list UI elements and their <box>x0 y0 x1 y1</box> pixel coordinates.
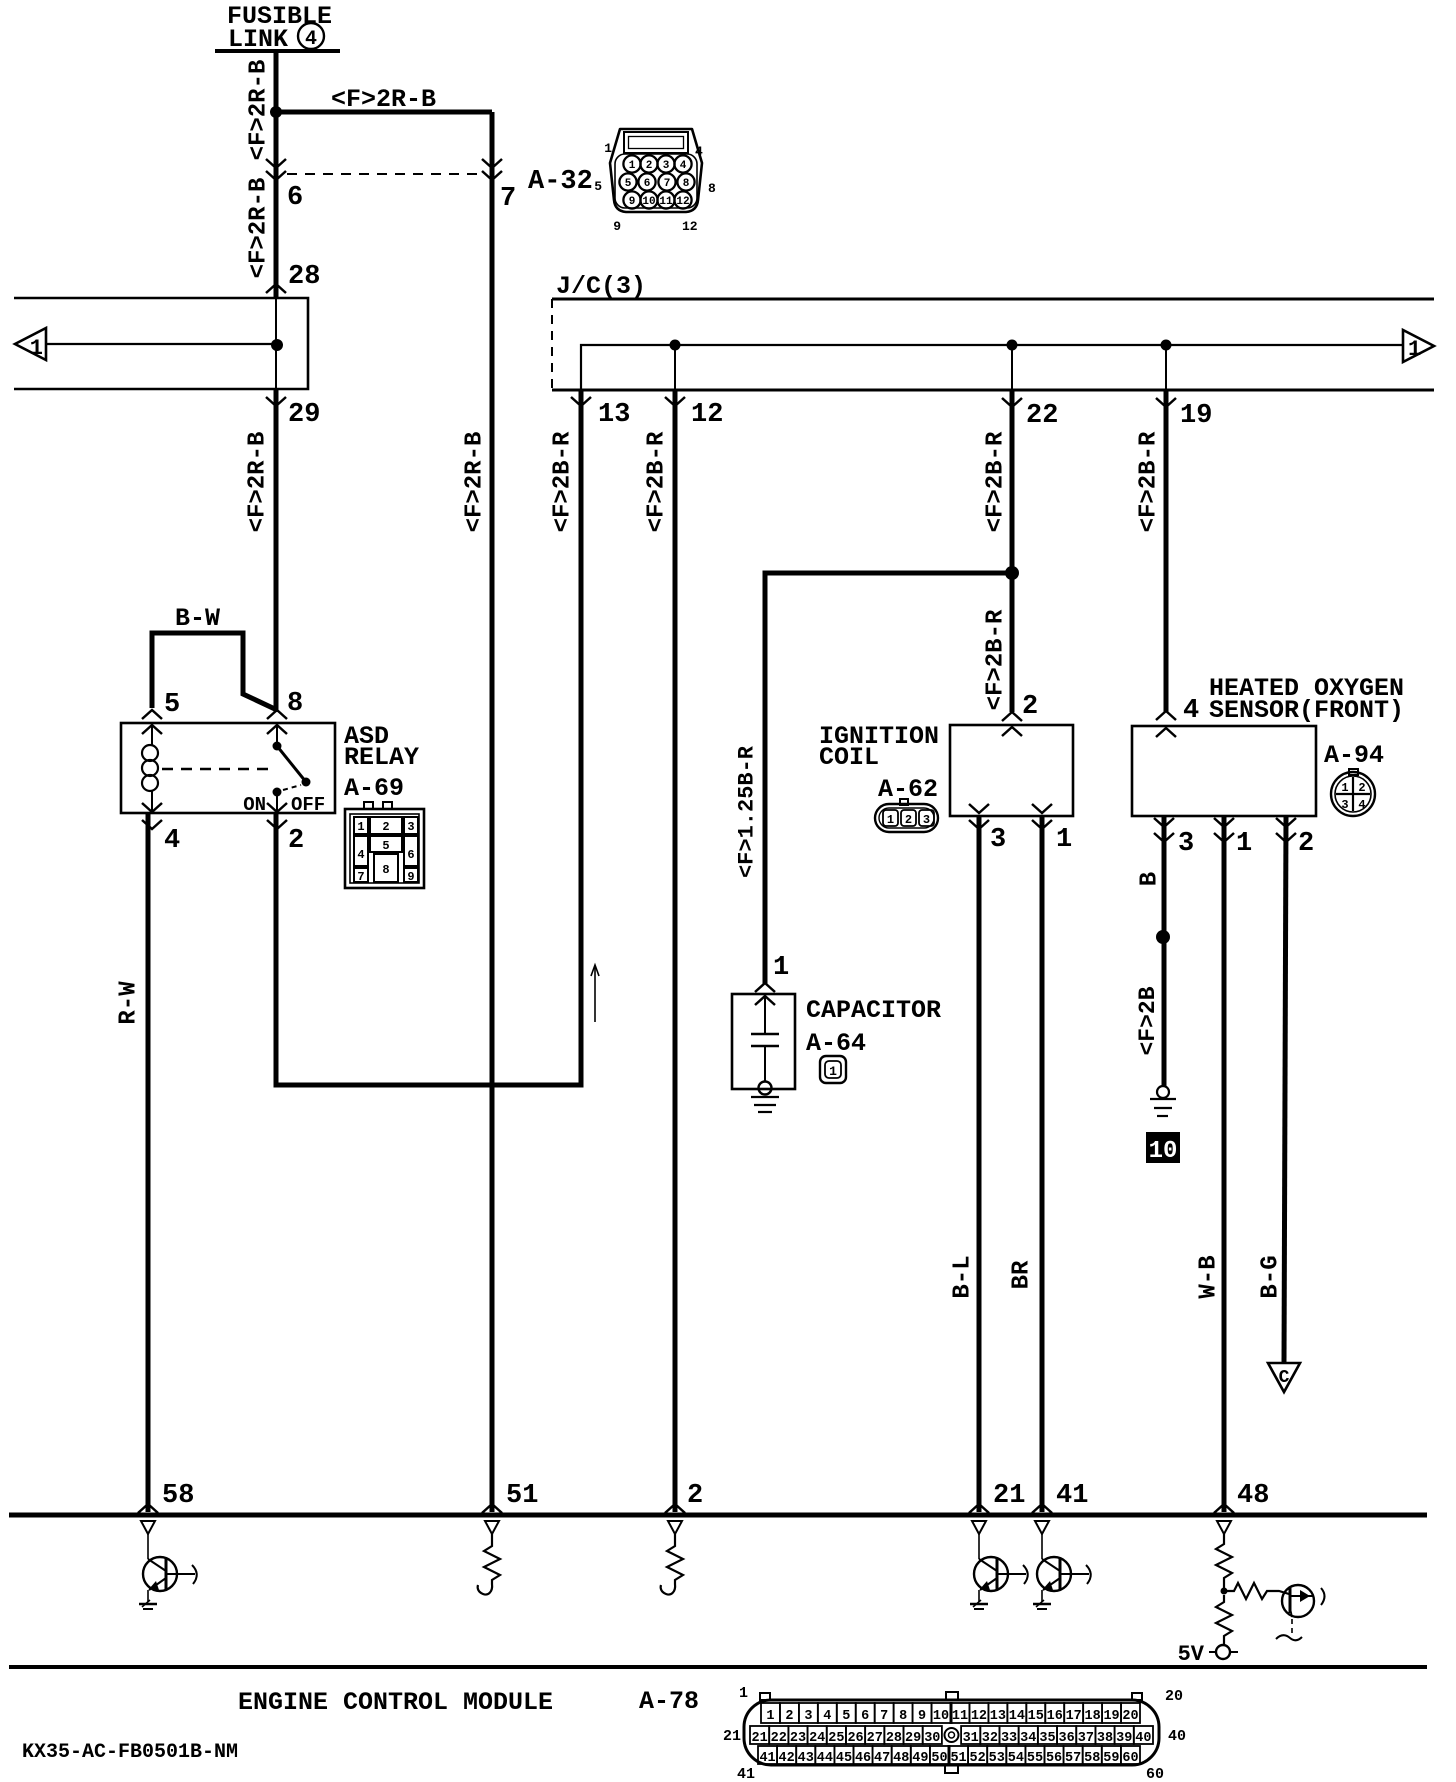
svg-text:29: 29 <box>905 1731 921 1746</box>
svg-text:KX35-AC-FB0501B-NM: KX35-AC-FB0501B-NM <box>22 1741 238 1764</box>
junction dot at fusible link branch <box>270 106 282 118</box>
resistor at ECM pin 2 <box>661 1534 683 1595</box>
connector A-32 pin face icon <box>610 129 702 212</box>
connector A-94 icon <box>1349 769 1358 775</box>
svg-text:19: 19 <box>1180 401 1212 431</box>
svg-text:43: 43 <box>798 1751 814 1766</box>
svg-text:6: 6 <box>287 183 303 213</box>
svg-text:44: 44 <box>817 1751 833 1766</box>
wire: pin 29 down to relay pin 8 <box>274 389 279 712</box>
fusible link bus bar <box>215 49 340 53</box>
svg-text:ON: ON <box>243 794 266 816</box>
arrow into ECM pin 51 <box>482 1504 502 1513</box>
svg-text:<F>2B: <F>2B <box>1135 986 1161 1055</box>
arrow into A-32 pin 7 <box>482 159 502 168</box>
svg-text:10: 10 <box>933 1709 949 1724</box>
svg-text:<F>2B-R: <F>2B-R <box>643 431 670 532</box>
svg-text:5: 5 <box>594 179 602 194</box>
arrow into A-32 pin 6 <box>266 159 286 168</box>
svg-text:10: 10 <box>642 196 655 208</box>
svg-text:41: 41 <box>737 1766 755 1782</box>
J/C(3) internal bus <box>581 345 1403 390</box>
svg-text:2: 2 <box>1022 692 1038 722</box>
svg-text:50: 50 <box>931 1751 947 1766</box>
relay coil lead <box>151 723 153 746</box>
svg-text:8: 8 <box>899 1709 907 1724</box>
arrow out of relay pin 4 <box>142 803 162 812</box>
connector A-32 dashed tie line <box>287 173 481 175</box>
transistor at ECM pin 21 <box>978 1534 980 1559</box>
svg-text:21: 21 <box>993 1481 1025 1511</box>
svg-text:COIL: COIL <box>819 743 879 772</box>
svg-text:4: 4 <box>1358 798 1365 812</box>
svg-text:23: 23 <box>790 1731 806 1746</box>
capacitor plates <box>751 1033 779 1035</box>
svg-text:25: 25 <box>828 1731 844 1746</box>
svg-text:12: 12 <box>971 1709 987 1724</box>
relay contact arm (OFF) <box>277 746 306 782</box>
J/C(3) right arrow triangle 1 <box>1403 330 1434 362</box>
arrow into ECM pin 21 <box>969 1504 989 1513</box>
capacitor bottom lead <box>764 1046 766 1082</box>
ECM connector A-78 icon <box>744 1700 1159 1765</box>
arrow out of coil pin 1 <box>1032 804 1052 813</box>
svg-text:21: 21 <box>723 1728 741 1745</box>
ECM box top edge <box>9 1513 1427 1518</box>
svg-text:1: 1 <box>773 953 789 983</box>
wire B-W from pin 5 loop to pin 8 <box>152 633 277 710</box>
arrow out of sensor pin 1 <box>1214 818 1234 827</box>
svg-text:48: 48 <box>1237 1481 1269 1511</box>
svg-text:<F>2B-R: <F>2B-R <box>982 431 1009 532</box>
svg-text:4: 4 <box>357 848 364 862</box>
svg-text:58: 58 <box>1084 1751 1100 1766</box>
svg-text:<F>2B-R: <F>2B-R <box>982 609 1009 710</box>
junction dot J/C pin 22 <box>1007 340 1018 351</box>
svg-text:4: 4 <box>164 826 180 856</box>
svg-text:8: 8 <box>382 863 389 877</box>
svg-text:3: 3 <box>804 1709 812 1724</box>
svg-text:33: 33 <box>1001 1731 1017 1746</box>
svg-text:14: 14 <box>1009 1709 1025 1724</box>
wire: sensor pin 1 down to ECM pin 48 W-B <box>1222 816 1227 1512</box>
arrow out of sensor pin 2 <box>1276 818 1296 827</box>
capacitor ground symbol <box>751 1096 779 1098</box>
svg-text:1: 1 <box>604 141 612 156</box>
svg-text:35: 35 <box>1039 1731 1055 1746</box>
arrow into ECM pin 48 <box>1214 1504 1234 1513</box>
arrow out of pin 29 <box>266 397 286 406</box>
wire: sensor pin 2 to connector C B-G <box>1284 816 1286 1362</box>
arrow into ECM pin 41 <box>1032 1504 1052 1513</box>
svg-text:57: 57 <box>1065 1751 1081 1766</box>
svg-text:1: 1 <box>30 336 43 361</box>
ground terminal circle <box>1157 1086 1169 1098</box>
svg-text:<F>2R-B: <F>2R-B <box>331 85 436 114</box>
wire: sensor pin 3 to ground (F)2B <box>1162 816 1167 1086</box>
svg-text:<F>2R-B: <F>2R-B <box>461 432 488 533</box>
svg-text:2: 2 <box>646 160 653 172</box>
junction dot J/C pin 19 <box>1161 340 1172 351</box>
svg-text:60: 60 <box>1146 1766 1164 1782</box>
svg-text:22: 22 <box>771 1731 787 1746</box>
svg-text:40: 40 <box>1168 1728 1186 1745</box>
svg-text:29: 29 <box>288 400 320 430</box>
pull-up network at ECM pin 48 <box>1216 1534 1232 1591</box>
svg-text:1: 1 <box>829 1064 837 1079</box>
svg-text:8: 8 <box>683 178 690 190</box>
ECM pin 21 input triangle <box>972 1521 986 1534</box>
svg-text:49: 49 <box>912 1751 928 1766</box>
svg-text:54: 54 <box>1008 1751 1024 1766</box>
svg-text:<F>2R-B: <F>2R-B <box>244 432 271 533</box>
svg-text:51: 51 <box>950 1751 966 1766</box>
svg-text:2: 2 <box>1298 829 1314 859</box>
wire: J/C 22 down to ignition coil pin 2 <box>1010 390 1015 712</box>
svg-text:19: 19 <box>1103 1709 1119 1724</box>
ECM box bottom edge <box>9 1665 1427 1669</box>
svg-text:1: 1 <box>739 1685 748 1702</box>
svg-text:2: 2 <box>288 826 304 856</box>
transistor at ECM pin 58 <box>147 1534 149 1559</box>
wire: branch to capacitor (F)1.25B-R <box>765 573 1012 984</box>
svg-text:5V: 5V <box>1178 1642 1205 1667</box>
arrow out of coil pin 3 <box>969 804 989 813</box>
arrow into relay pin 5 <box>142 710 162 719</box>
arrow out of J/C pin 12 <box>665 397 685 406</box>
svg-text:9: 9 <box>407 870 414 884</box>
svg-text:53: 53 <box>989 1751 1005 1766</box>
svg-text:7: 7 <box>500 184 516 214</box>
direction arrow beside wire 13 <box>594 966 596 1022</box>
svg-text:31: 31 <box>963 1731 979 1746</box>
svg-text:3: 3 <box>990 825 1006 855</box>
arrow out of J/C pin 13 <box>571 397 591 406</box>
svg-text:4: 4 <box>680 160 687 172</box>
svg-text:1: 1 <box>629 160 636 172</box>
wire: branch to A-32 pin 7 (F)2R-B horizontal <box>276 110 492 115</box>
svg-text:6: 6 <box>407 848 414 862</box>
svg-text:5: 5 <box>625 178 632 190</box>
svg-text:22: 22 <box>1026 401 1058 431</box>
junction dot in left box <box>271 339 283 351</box>
svg-text:55: 55 <box>1027 1751 1043 1766</box>
svg-text:1: 1 <box>1341 781 1348 795</box>
svg-text:3: 3 <box>923 813 930 827</box>
svg-text:8: 8 <box>287 689 303 719</box>
svg-text:<F>2R-B: <F>2R-B <box>245 178 272 279</box>
svg-text:9: 9 <box>613 219 621 234</box>
svg-text:A-94: A-94 <box>1324 741 1384 770</box>
ECM pin 41 input triangle <box>1035 1521 1049 1534</box>
svg-text:26: 26 <box>847 1731 863 1746</box>
circled 4 (fusible link number) <box>298 23 324 49</box>
svg-text:4: 4 <box>823 1709 831 1724</box>
svg-text:24: 24 <box>809 1731 825 1746</box>
svg-text:A-78: A-78 <box>639 1687 699 1716</box>
arrow into coil pin 2 <box>1002 712 1022 721</box>
svg-text:30: 30 <box>924 1731 940 1746</box>
svg-text:42: 42 <box>779 1751 795 1766</box>
svg-text:38: 38 <box>1097 1731 1113 1746</box>
svg-text:20: 20 <box>1165 1688 1183 1705</box>
svg-text:7: 7 <box>664 178 671 190</box>
svg-text:B: B <box>1136 872 1163 886</box>
wire through left box <box>275 298 277 389</box>
svg-text:8: 8 <box>708 181 716 196</box>
connector A-64 icon <box>820 1056 846 1083</box>
J/C(3) box bottom edge <box>552 389 1434 392</box>
svg-text:1: 1 <box>1408 337 1421 362</box>
arrow into sensor pin 4 <box>1156 711 1176 720</box>
arrow into ECM pin 58 <box>138 1504 158 1513</box>
svg-text:6: 6 <box>861 1709 869 1724</box>
svg-text:2: 2 <box>1358 781 1365 795</box>
arrow out of sensor pin 3 <box>1154 818 1174 827</box>
svg-text:W-B: W-B <box>1195 1255 1222 1298</box>
svg-text:37: 37 <box>1078 1731 1094 1746</box>
svg-text:59: 59 <box>1103 1751 1119 1766</box>
svg-text:12: 12 <box>676 196 689 208</box>
wire: fusible link down to A-32 pin 6 (F)2R-B <box>274 51 279 298</box>
wire J/C pin 22 inside box <box>1011 345 1013 390</box>
arrow into ECM pin 2 <box>665 1504 685 1513</box>
svg-text:20: 20 <box>1122 1709 1138 1724</box>
svg-text:2: 2 <box>687 1481 703 1511</box>
capacitor top lead <box>764 994 766 1034</box>
svg-text:46: 46 <box>855 1751 871 1766</box>
svg-text:ENGINE CONTROL MODULE: ENGINE CONTROL MODULE <box>238 1688 553 1717</box>
ground reference 10 box <box>1146 1132 1180 1163</box>
svg-text:B-L: B-L <box>949 1255 976 1298</box>
svg-text:28: 28 <box>288 262 320 292</box>
svg-text:58: 58 <box>162 1481 194 1511</box>
resistor at ECM pin 51 <box>478 1534 500 1595</box>
J/C(3) box top edge <box>552 298 1434 301</box>
wire: coil pin 3 down to ECM pin 21 B-L <box>977 816 982 1512</box>
svg-text:R-W: R-W <box>115 981 142 1025</box>
svg-text:1: 1 <box>1056 825 1072 855</box>
arrow out of relay pin 2 <box>267 803 287 812</box>
svg-text:36: 36 <box>1059 1731 1075 1746</box>
svg-text:3: 3 <box>663 160 670 172</box>
svg-text:7: 7 <box>357 870 364 884</box>
relay contact common <box>276 723 278 742</box>
junction dot J/C pin 12 <box>670 340 681 351</box>
svg-text:B-W: B-W <box>175 604 220 633</box>
relay contact ON point <box>273 788 282 797</box>
svg-text:CAPACITOR: CAPACITOR <box>806 996 941 1025</box>
svg-text:3: 3 <box>1178 829 1194 859</box>
svg-text:12: 12 <box>682 219 698 234</box>
svg-text:4: 4 <box>305 28 317 51</box>
junction dot on sensor ground wire <box>1156 930 1170 944</box>
svg-text:13: 13 <box>990 1709 1006 1724</box>
svg-text:32: 32 <box>982 1731 998 1746</box>
svg-text:48: 48 <box>893 1751 909 1766</box>
svg-text:47: 47 <box>874 1751 890 1766</box>
connector A-62 icon <box>900 799 908 805</box>
left junction box outline <box>14 298 308 389</box>
svg-text:5: 5 <box>382 839 389 853</box>
svg-text:5: 5 <box>164 690 180 720</box>
svg-text:13: 13 <box>598 400 630 430</box>
svg-text:A-32: A-32 <box>528 167 593 197</box>
wire: relay pin 2 to J/C pin 13 <box>276 390 581 1085</box>
svg-text:17: 17 <box>1066 1709 1082 1724</box>
wire: relay pin 4 down to ECM pin 58 <box>146 813 151 1512</box>
ECM pin 58 input triangle <box>141 1521 155 1534</box>
svg-text:<F>1.25B-R: <F>1.25B-R <box>735 745 760 878</box>
svg-text:C: C <box>1279 1368 1290 1388</box>
ground symbol <box>1150 1098 1176 1100</box>
capacitor box <box>732 994 795 1089</box>
arrow out of J/C pin 22 <box>1002 398 1022 407</box>
svg-text:12: 12 <box>691 400 723 430</box>
svg-text:41: 41 <box>759 1751 775 1766</box>
wire: A-32 pin 7 vertical down to ECM pin 51 <box>490 112 495 1512</box>
svg-text:45: 45 <box>836 1751 852 1766</box>
bus wire inside left box <box>46 343 277 345</box>
svg-text:2: 2 <box>785 1709 793 1724</box>
relay contact lower lead <box>276 792 278 813</box>
ECM pin 2 input triangle <box>668 1521 682 1534</box>
svg-text:B-G: B-G <box>1257 1255 1284 1298</box>
junction dot capacitor branch <box>1005 566 1019 580</box>
svg-text:18: 18 <box>1085 1709 1101 1724</box>
arrow into relay pin 8 <box>267 710 287 719</box>
connector A-69 pin face icon <box>345 809 424 888</box>
svg-text:A-69: A-69 <box>344 774 404 803</box>
svg-text:4: 4 <box>695 144 703 159</box>
svg-text:9: 9 <box>629 196 636 208</box>
oxygen sensor box <box>1132 726 1316 816</box>
wire: J/C 19 down to oxygen sensor pin 4 <box>1164 390 1169 712</box>
svg-text:34: 34 <box>1020 1731 1036 1746</box>
svg-text:3: 3 <box>407 820 414 834</box>
transistor at ECM pin 41 <box>1041 1534 1043 1559</box>
svg-text:6: 6 <box>644 178 651 190</box>
wire J/C pin 19 inside box <box>1165 345 1167 390</box>
svg-text:SENSOR(FRONT): SENSOR(FRONT) <box>1209 696 1404 725</box>
svg-text:J/C(3): J/C(3) <box>556 272 646 301</box>
relay coil-contact dashed link <box>162 768 268 770</box>
svg-text:1: 1 <box>357 820 364 834</box>
svg-text:4: 4 <box>1183 696 1199 726</box>
arrow out of J/C pin 19 <box>1156 398 1176 407</box>
ASD relay box <box>121 723 335 813</box>
svg-text:40: 40 <box>1135 1731 1151 1746</box>
svg-text:21: 21 <box>751 1731 767 1746</box>
ECM pin 51 input triangle <box>485 1521 499 1534</box>
svg-text:1: 1 <box>1236 829 1252 859</box>
relay coil lower lead <box>151 790 153 813</box>
svg-text:<F>2B-R: <F>2B-R <box>1135 431 1162 532</box>
wire: J/C 12 down to ECM pin 2 <box>673 390 678 1512</box>
svg-text:BR: BR <box>1008 1260 1035 1289</box>
ignition coil box <box>950 725 1073 816</box>
svg-text:52: 52 <box>970 1751 986 1766</box>
svg-text:11: 11 <box>659 196 673 208</box>
svg-text:1: 1 <box>766 1709 774 1724</box>
svg-text:2: 2 <box>382 820 389 834</box>
arrow triangle C <box>1268 1363 1300 1392</box>
wire J/C pin 12 inside box <box>674 345 676 390</box>
svg-text:<F>2R-B: <F>2R-B <box>245 60 272 161</box>
svg-text:9: 9 <box>918 1709 926 1724</box>
svg-text:56: 56 <box>1046 1751 1062 1766</box>
wire: coil pin 1 down to ECM pin 41 BR <box>1040 816 1045 1512</box>
svg-text:3: 3 <box>1341 798 1348 812</box>
svg-text:A-64: A-64 <box>806 1029 866 1058</box>
svg-text:11: 11 <box>952 1709 968 1724</box>
svg-text:41: 41 <box>1056 1481 1088 1511</box>
svg-text:15: 15 <box>1028 1709 1044 1724</box>
svg-text:5: 5 <box>842 1709 850 1724</box>
svg-text:10: 10 <box>1149 1138 1178 1165</box>
svg-text:27: 27 <box>867 1731 883 1746</box>
svg-text:39: 39 <box>1116 1731 1132 1746</box>
svg-text:7: 7 <box>880 1709 888 1724</box>
arrow into capacitor pin 1 <box>755 983 775 992</box>
svg-text:2: 2 <box>905 813 912 827</box>
J/C(3) box dashed left edge <box>551 299 553 390</box>
svg-text:1: 1 <box>887 813 894 827</box>
arrow into pin 28 <box>266 284 286 293</box>
svg-text:60: 60 <box>1122 1751 1138 1766</box>
ECM pin 48 input triangle <box>1217 1521 1231 1534</box>
capacitor ground circle <box>759 1082 772 1095</box>
svg-text:51: 51 <box>506 1481 538 1511</box>
svg-text:RELAY: RELAY <box>344 743 419 772</box>
svg-text:OFF: OFF <box>291 794 325 816</box>
svg-text:<F>2B-R: <F>2B-R <box>549 431 576 532</box>
svg-text:28: 28 <box>886 1731 902 1746</box>
svg-text:16: 16 <box>1047 1709 1063 1724</box>
relay coil <box>142 745 158 761</box>
left arrow triangle 1 <box>15 328 46 360</box>
